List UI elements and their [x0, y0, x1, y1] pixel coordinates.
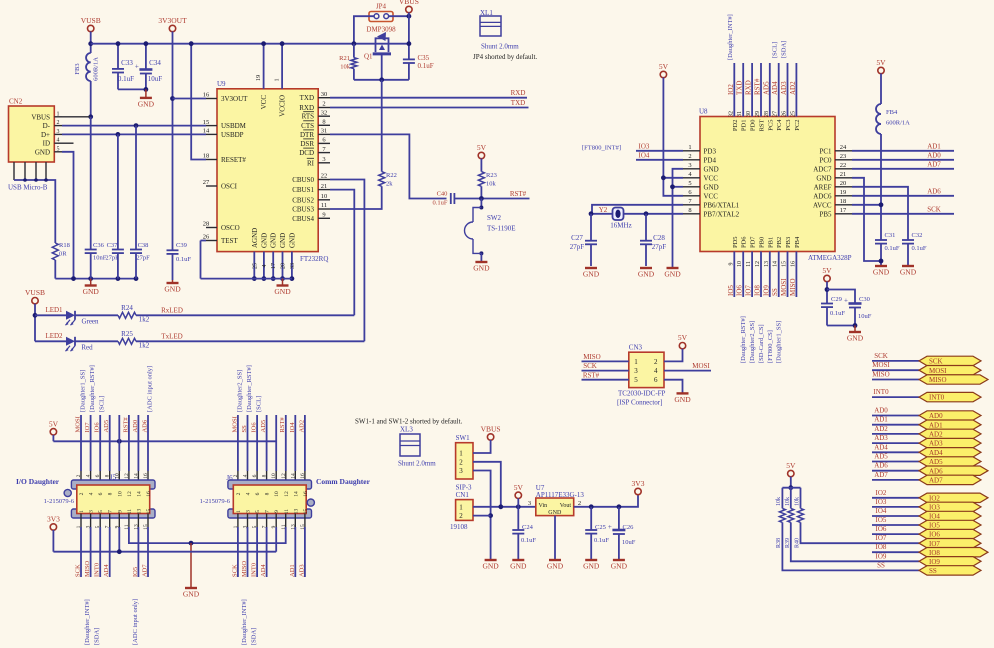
svg-text:[SD-Card_CS]: [SD-Card_CS] — [758, 324, 765, 363]
svg-text:23: 23 — [840, 153, 847, 160]
node AD0 port flag — [919, 411, 981, 420]
svg-text:13: 13 — [764, 261, 770, 267]
svg-text:16: 16 — [203, 92, 210, 99]
svg-text:Green: Green — [81, 318, 99, 326]
node IO9 port flag — [919, 557, 981, 566]
ferrite bead FB3 — [86, 53, 91, 81]
switch SW2 — [479, 206, 483, 210]
svg-text:GND: GND — [274, 287, 291, 296]
svg-text:C31: C31 — [885, 232, 896, 239]
junction RST node — [479, 196, 484, 201]
junction pullup rail — [788, 485, 793, 490]
svg-text:28: 28 — [764, 111, 770, 117]
U8 top pin 27 wire — [778, 63, 780, 117]
wire J6 bottom col 5 — [256, 514, 258, 528]
svg-text:SW2: SW2 — [487, 214, 502, 222]
node IO8 port flag — [919, 548, 988, 557]
U9 bottom pin 4 wire — [263, 252, 265, 279]
svg-text:10: 10 — [114, 473, 120, 479]
svg-text:17: 17 — [271, 263, 277, 269]
svg-text:[FT800_CS]: [FT800_CS] — [767, 330, 774, 363]
svg-text:10: 10 — [321, 193, 328, 200]
U9 pin 6 stub — [318, 142, 330, 144]
wire IO8 flag — [872, 551, 919, 553]
svg-text:9: 9 — [728, 263, 734, 266]
svg-text:2: 2 — [57, 120, 60, 126]
svg-text:[Daughter_RST#]: [Daughter_RST#] — [246, 365, 253, 412]
svg-text:R18: R18 — [59, 242, 70, 249]
svg-text:0.1uF: 0.1uF — [118, 75, 134, 83]
svg-text:AD4: AD4 — [771, 81, 779, 95]
resistor R21 — [351, 58, 357, 69]
svg-text:18: 18 — [840, 198, 847, 205]
wire TXD net — [330, 97, 527, 99]
transistor Q1 DMP3098 — [376, 38, 389, 52]
resistor R22 — [379, 172, 385, 187]
wire J6 top col 4 — [247, 415, 249, 471]
svg-text:1: 1 — [459, 503, 463, 511]
svg-text:GND: GND — [260, 233, 268, 248]
wire MOSI flag — [872, 369, 919, 371]
junction C25 — [589, 504, 594, 509]
wire led2 row b — [75, 340, 118, 342]
svg-text:C32: C32 — [912, 232, 923, 239]
svg-text:JP4: JP4 — [376, 3, 387, 11]
wire J6 bottom col 7 — [266, 514, 268, 528]
svg-text:12: 12 — [281, 473, 287, 479]
svg-text:Shunt 2.0mm: Shunt 2.0mm — [481, 43, 519, 51]
svg-text:7: 7 — [265, 510, 271, 513]
svg-text:IO8: IO8 — [876, 543, 887, 551]
node AD2 port flag — [919, 429, 981, 438]
led LED1 — [66, 311, 75, 320]
svg-text:PD5: PD5 — [732, 236, 739, 248]
wire J6 top col 14 — [294, 415, 296, 471]
capacitor C30 — [849, 302, 862, 305]
led LED2 — [66, 337, 75, 346]
svg-text:SCK: SCK — [75, 564, 82, 577]
junction VCC pin4 — [661, 175, 666, 180]
wire D+ to USBDP — [62, 133, 206, 135]
svg-text:[ISP Connector]: [ISP Connector] — [617, 399, 662, 407]
svg-text:AD5: AD5 — [260, 420, 267, 433]
svg-text:27pF: 27pF — [136, 255, 150, 262]
svg-text:Vin: Vin — [539, 503, 548, 509]
svg-text:IO2: IO2 — [929, 494, 940, 502]
wire RST to SW2 — [480, 199, 482, 208]
wire IO4 flag — [872, 515, 919, 517]
svg-text:Y2: Y2 — [599, 206, 608, 214]
svg-text:SS: SS — [929, 567, 937, 575]
capacitor C37 — [117, 134, 119, 249]
U9 bottom pin 20 wire — [282, 252, 284, 279]
node MOSI port flag — [919, 366, 981, 375]
svg-text:PB6/XTAL1: PB6/XTAL1 — [704, 201, 740, 209]
wire IO6 flag — [872, 533, 919, 535]
svg-text:AD7: AD7 — [929, 477, 943, 485]
wire JP4 right — [389, 15, 409, 17]
svg-text:C33: C33 — [121, 59, 133, 67]
svg-text:5V: 5V — [514, 483, 524, 492]
svg-text:12: 12 — [755, 261, 761, 267]
svg-text:17: 17 — [840, 207, 847, 214]
svg-text:SCK: SCK — [874, 352, 888, 360]
svg-text:GND: GND — [638, 270, 655, 279]
wire shield bus — [14, 180, 55, 243]
wire J5 bottom col 7 — [109, 514, 111, 528]
svg-text:GND: GND — [473, 264, 490, 273]
svg-text:MOSI: MOSI — [231, 416, 238, 432]
svg-text:JP4 shorted by default.: JP4 shorted by default. — [473, 53, 537, 61]
svg-text:[SCL]: [SCL] — [99, 396, 106, 412]
svg-text:1: 1 — [459, 450, 463, 458]
wire CN1 pin1 — [473, 506, 536, 508]
svg-text:6: 6 — [95, 474, 101, 477]
svg-text:1: 1 — [236, 510, 242, 513]
svg-text:C26: C26 — [623, 524, 635, 531]
capacitor C35 — [403, 58, 415, 60]
wire AD2 flag — [872, 433, 919, 435]
wire J5 top col 2 — [80, 415, 82, 471]
svg-text:IO7: IO7 — [84, 422, 91, 433]
wire SW2 to gnd — [480, 253, 482, 262]
svg-text:PB3: PB3 — [785, 237, 792, 248]
svg-text:VCCIO: VCCIO — [279, 95, 287, 117]
svg-text:AD2: AD2 — [789, 81, 797, 95]
svg-text:TC2030-IDC-FP: TC2030-IDC-FP — [618, 390, 666, 398]
svg-text:GND: GND — [270, 233, 278, 248]
wire 5V daughter rail — [52, 435, 54, 442]
svg-text:AD4: AD4 — [103, 564, 110, 577]
svg-text:GND: GND — [279, 233, 287, 248]
svg-text:32: 32 — [728, 111, 734, 117]
junction gnd link — [189, 541, 194, 546]
svg-text:4: 4 — [654, 367, 658, 375]
svg-text:GND: GND — [548, 510, 562, 516]
svg-text:RST#: RST# — [583, 371, 600, 379]
svg-text:SCK: SCK — [927, 205, 941, 213]
ground C24 — [512, 559, 524, 561]
svg-text:PB4: PB4 — [794, 236, 801, 248]
svg-text:SS: SS — [771, 288, 779, 296]
svg-text:SCK: SCK — [929, 358, 943, 366]
wire MISO CN3 — [582, 360, 629, 362]
svg-text:4: 4 — [57, 138, 60, 144]
svg-text:AD1: AD1 — [874, 416, 888, 424]
U8 pin 2 stub — [683, 159, 700, 161]
svg-text:RxLED: RxLED — [161, 307, 183, 315]
svg-text:PD4: PD4 — [704, 156, 717, 164]
capacitor C33 — [117, 44, 119, 69]
svg-text:10k: 10k — [795, 497, 801, 506]
svg-text:RST#: RST# — [122, 417, 129, 433]
svg-text:SCK: SCK — [231, 564, 238, 577]
wire U8 gnd21 — [852, 178, 881, 261]
svg-text:IO4: IO4 — [639, 151, 650, 159]
svg-text:RTS: RTS — [302, 113, 315, 121]
svg-text:AD0: AD0 — [929, 412, 943, 420]
svg-text:+: + — [844, 297, 848, 305]
svg-text:5: 5 — [98, 510, 104, 513]
junction VCCIO bus — [280, 41, 285, 46]
junction shield 3 — [44, 178, 48, 182]
capacitor C39 — [167, 249, 179, 251]
svg-text:IO6: IO6 — [876, 525, 887, 533]
wire AD1 flag — [872, 424, 919, 426]
wire IO5 flag — [872, 524, 919, 526]
wire CN1 pin2 — [473, 515, 491, 517]
svg-text:27: 27 — [773, 111, 779, 117]
wire RST# CN3 — [582, 379, 629, 381]
svg-text:10: 10 — [274, 491, 280, 497]
svg-text:GND: GND — [547, 562, 564, 571]
svg-text:3V3: 3V3 — [47, 515, 60, 524]
junction 3V3 rail J5 — [117, 549, 122, 554]
svg-text:VUSB: VUSB — [81, 16, 101, 25]
svg-text:5V: 5V — [822, 266, 832, 275]
U8 top pin 26 wire — [787, 63, 789, 117]
svg-text:3V3OUT: 3V3OUT — [221, 95, 248, 103]
svg-text:8: 8 — [262, 474, 268, 477]
svg-text:IO8: IO8 — [754, 285, 762, 296]
svg-text:10: 10 — [117, 491, 123, 497]
svg-text:C30: C30 — [859, 296, 870, 303]
shunt XL1 — [480, 16, 501, 36]
node MISO port flag — [919, 375, 988, 384]
wire C33 C34 gnd join — [118, 88, 146, 90]
svg-text:16: 16 — [146, 491, 152, 497]
svg-text:PC4: PC4 — [776, 119, 783, 131]
junction 5V rail J5 — [117, 439, 122, 444]
wire CN2 gnd pin5 — [62, 152, 74, 279]
U8 top pin 28 wire — [769, 63, 771, 117]
svg-text:C37: C37 — [107, 242, 119, 249]
wire AVCC — [852, 204, 881, 206]
svg-text:2: 2 — [76, 474, 82, 477]
U8 pin 17 stub — [835, 213, 852, 215]
svg-text:21: 21 — [321, 183, 328, 190]
svg-text:16: 16 — [303, 491, 309, 497]
svg-text:5: 5 — [634, 376, 638, 384]
U9 pin 21 stub — [318, 189, 330, 191]
wire SW1 pin1 — [473, 440, 491, 453]
U9 pin 2 stub — [318, 107, 330, 109]
wire 5V pullup stem — [790, 477, 792, 488]
svg-text:16: 16 — [300, 473, 306, 479]
svg-text:MISO: MISO — [872, 371, 890, 379]
ground under C32 — [902, 265, 914, 267]
svg-text:USBDM: USBDM — [221, 122, 247, 130]
svg-text:15: 15 — [146, 509, 152, 515]
svg-text:ID: ID — [43, 140, 50, 148]
svg-text:0R: 0R — [59, 251, 67, 258]
svg-text:IO6: IO6 — [94, 422, 101, 433]
U9 pin 32 stub — [318, 115, 330, 117]
svg-text:TEST: TEST — [221, 237, 238, 245]
svg-text:AD6: AD6 — [927, 187, 941, 195]
junction rail 5V — [516, 504, 521, 509]
svg-text:14: 14 — [133, 473, 139, 479]
svg-text:32: 32 — [321, 109, 328, 116]
svg-text:IO4: IO4 — [876, 507, 887, 515]
capacitor C29 — [821, 303, 833, 305]
svg-text:U8: U8 — [699, 108, 708, 116]
wire J6 top col 2 — [237, 415, 239, 471]
node IO5 port flag — [919, 520, 981, 529]
svg-text:[Daughter_INT#]: [Daughter_INT#] — [727, 14, 734, 60]
junction gnd bus b — [88, 276, 93, 281]
svg-text:4: 4 — [243, 474, 249, 477]
svg-text:14: 14 — [203, 128, 210, 135]
svg-text:27pF: 27pF — [105, 255, 119, 262]
resistor R25 — [118, 338, 136, 344]
wire led1 row a — [35, 314, 66, 316]
svg-text:[SDA]: [SDA] — [251, 628, 258, 645]
svg-text:5: 5 — [688, 180, 691, 187]
svg-text:3V3OUT: 3V3OUT — [158, 16, 187, 25]
junction rail sw1 — [498, 504, 503, 509]
node SS port flag — [919, 566, 981, 575]
svg-text:3: 3 — [459, 467, 463, 475]
svg-text:0.1uF: 0.1uF — [912, 245, 927, 252]
wire led1 row b — [75, 314, 118, 316]
svg-text:5V: 5V — [876, 58, 886, 67]
svg-text:Q1: Q1 — [364, 53, 373, 61]
svg-text:AD7: AD7 — [927, 160, 941, 168]
connector CN2 — [9, 106, 55, 162]
U8 pin 23 stub — [835, 159, 852, 161]
svg-text:[SCL]: [SCL] — [772, 42, 779, 58]
wire 3V3OUT to pin16 — [173, 98, 207, 100]
resistor R38 — [779, 508, 785, 522]
svg-text:VBUS: VBUS — [31, 113, 50, 121]
wire GND pins U8 — [673, 169, 684, 268]
capacitor C40 — [450, 193, 452, 204]
svg-text:25: 25 — [790, 111, 796, 117]
svg-text:18: 18 — [203, 153, 210, 160]
svg-text:AD0: AD0 — [132, 420, 139, 433]
svg-text:MISO: MISO — [84, 560, 91, 577]
svg-text:IO6: IO6 — [251, 422, 258, 433]
svg-text:CTS: CTS — [301, 122, 314, 130]
wire FB3 to CN2 pin1 — [90, 81, 92, 117]
wire IO4 row — [636, 159, 683, 161]
svg-text:1-215079-6: 1-215079-6 — [44, 498, 75, 505]
U9 pin 8 stub — [318, 124, 330, 126]
U8 top pin 25 wire — [795, 63, 797, 117]
U8 pin 6 stub — [683, 195, 700, 197]
crystal Y2 — [613, 208, 624, 221]
node INT0 port flag — [919, 392, 981, 401]
CN2 pin4 stub wire — [62, 142, 74, 144]
svg-text:14: 14 — [773, 261, 779, 267]
svg-text:Shunt 2.0mm: Shunt 2.0mm — [398, 460, 436, 468]
capacitor C36 — [90, 117, 92, 250]
junction C31 gnd — [879, 259, 884, 264]
switch SW1 body — [456, 443, 473, 479]
svg-text:[Daughter_INT#]: [Daughter_INT#] — [241, 599, 248, 645]
svg-text:GND: GND — [674, 395, 691, 404]
wire R39 top — [790, 488, 792, 509]
svg-text:IO7: IO7 — [929, 540, 940, 548]
junction VCC bus — [261, 41, 266, 46]
junction CN1 gnd — [488, 513, 493, 518]
U9 pin 9 stub — [318, 217, 330, 219]
svg-text:RST#: RST# — [754, 78, 762, 95]
svg-text:22: 22 — [840, 162, 847, 169]
svg-text:RXD: RXD — [745, 80, 753, 95]
svg-text:RST#: RST# — [279, 417, 286, 433]
svg-text:LED1: LED1 — [45, 306, 63, 314]
svg-text:R22: R22 — [386, 172, 397, 179]
svg-text:31: 31 — [737, 111, 743, 117]
node IO6 port flag — [919, 529, 981, 538]
wire 5V U7 stem — [517, 498, 519, 530]
node AD4 port flag — [919, 448, 981, 457]
capacitor C34 — [145, 44, 147, 70]
svg-text:FB4: FB4 — [886, 109, 898, 116]
svg-text:10k: 10k — [486, 181, 497, 188]
svg-text:6: 6 — [252, 474, 258, 477]
wire FB4 to AVCC — [880, 134, 882, 240]
svg-text:2: 2 — [688, 153, 691, 160]
junction crystal right — [644, 211, 649, 216]
svg-text:2: 2 — [654, 358, 658, 366]
svg-text:3: 3 — [634, 367, 638, 375]
U8 bottom pin 13 wire — [769, 252, 771, 298]
svg-text:AD2: AD2 — [298, 420, 305, 433]
svg-text:AD6: AD6 — [929, 467, 943, 475]
svg-text:PB5: PB5 — [819, 210, 832, 218]
U9 pin 27 stub — [206, 185, 217, 187]
wire VUSB stem — [90, 32, 92, 54]
svg-text:16: 16 — [790, 261, 796, 267]
wire SW1 pin3 — [473, 471, 491, 561]
svg-text:MOSI: MOSI — [872, 361, 890, 369]
svg-text:4: 4 — [86, 474, 92, 477]
U8 pin 7 stub — [683, 204, 700, 206]
svg-text:IO3: IO3 — [639, 142, 650, 150]
capacitor C24 — [512, 529, 524, 531]
svg-text:10uF: 10uF — [858, 313, 872, 320]
svg-text:[ADC input only]: [ADC input only] — [132, 599, 139, 645]
U8 bottom pin 12 wire — [760, 252, 762, 298]
svg-text:2: 2 — [322, 101, 325, 108]
junction Q1 drain — [407, 41, 412, 46]
wire SCK flag — [872, 360, 919, 362]
svg-text:7: 7 — [108, 510, 114, 513]
svg-text:[Daughter2_SS]: [Daughter2_SS] — [236, 370, 243, 412]
svg-text:[Daughter_RST#]: [Daughter_RST#] — [89, 365, 96, 412]
svg-text:PD2: PD2 — [732, 120, 739, 132]
svg-text:SS: SS — [877, 561, 885, 569]
ground C25 — [585, 559, 597, 561]
wire J6 bottom col 3 — [247, 514, 249, 528]
wire AD4 flag — [872, 451, 919, 453]
svg-text:U9: U9 — [217, 80, 226, 88]
junction gnd bus c — [116, 276, 121, 281]
U9 bottom pin 25 wire — [253, 252, 255, 279]
svg-text:22: 22 — [321, 173, 328, 180]
wire 5V to VCC pins — [663, 78, 683, 196]
svg-text:FB3: FB3 — [74, 63, 81, 74]
junction gnd bus d — [134, 276, 139, 281]
svg-text:RI: RI — [307, 159, 315, 167]
U9 pin 10 stub — [318, 199, 330, 201]
ground under C30 — [854, 326, 856, 333]
wire U9 gnd bus — [201, 278, 292, 280]
capacitor C25 — [590, 507, 592, 530]
